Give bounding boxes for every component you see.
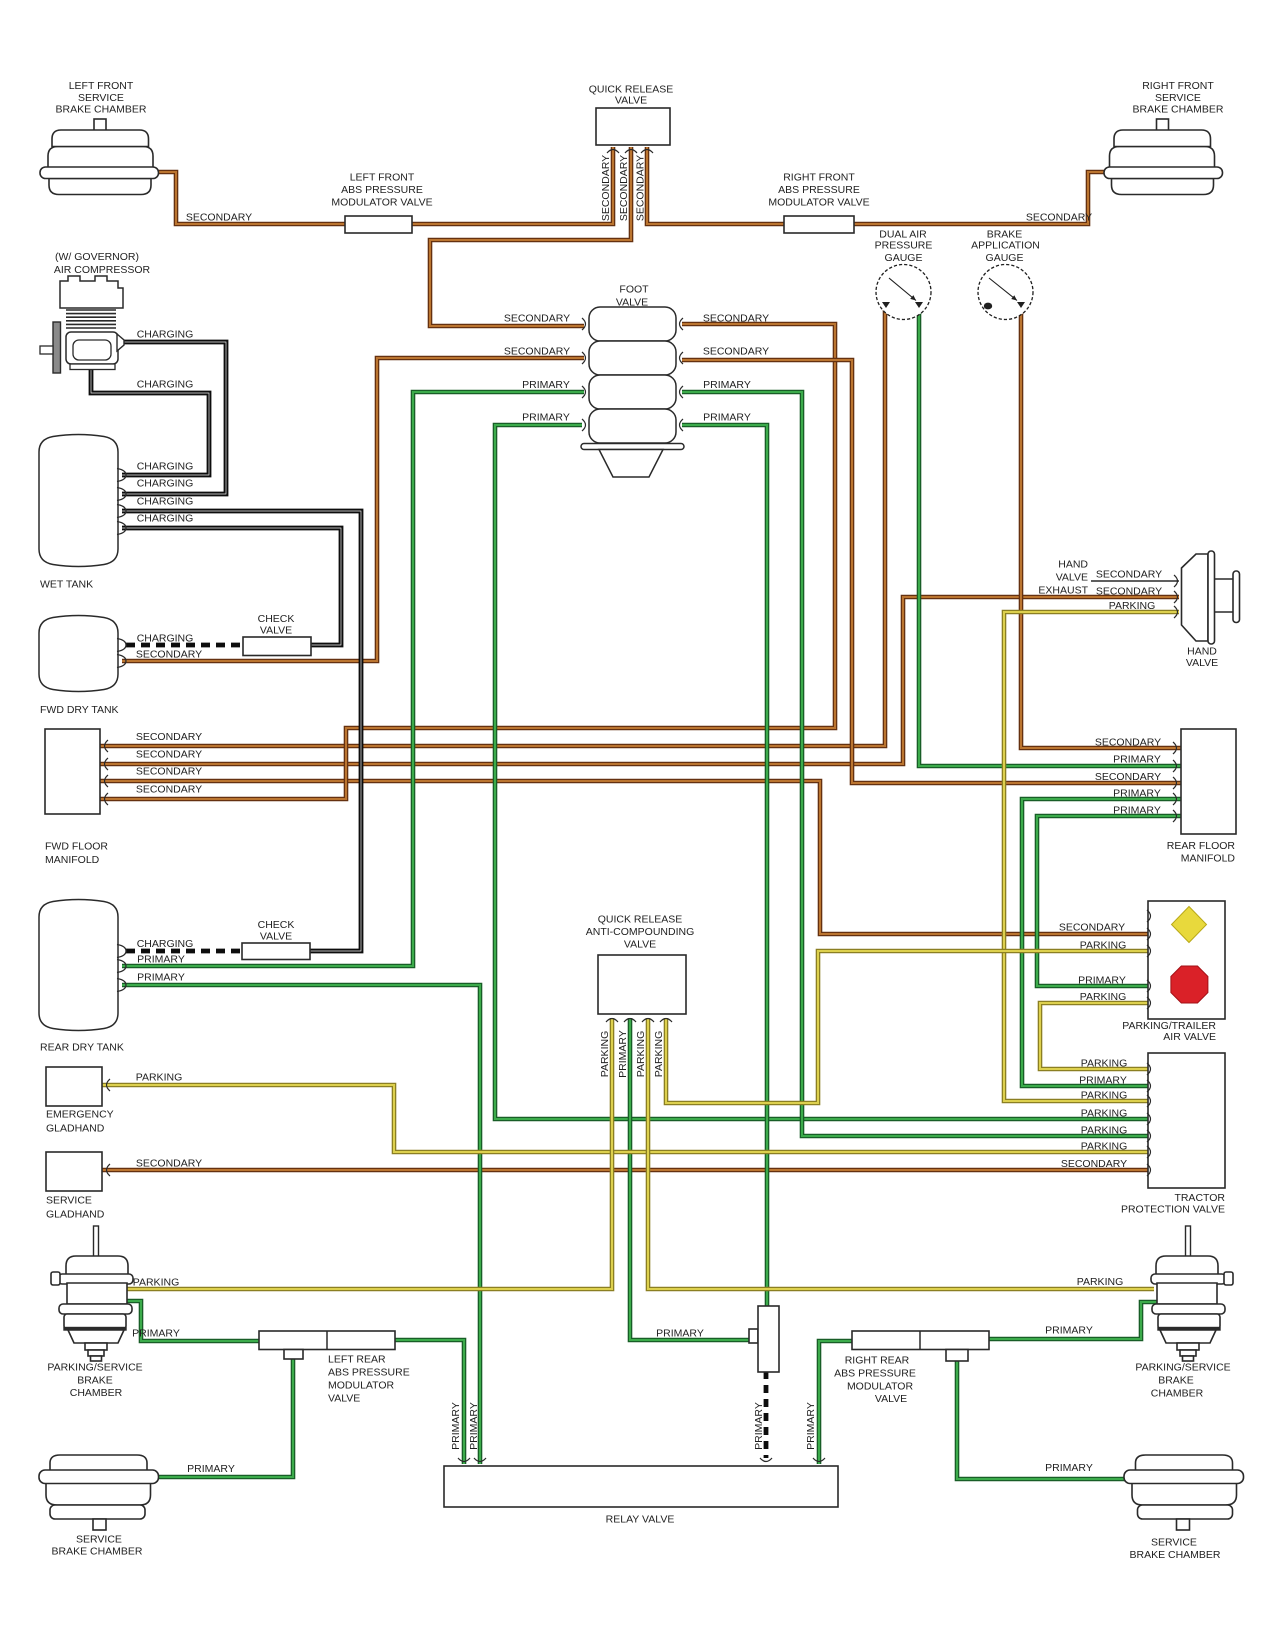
svg-text:SERVICE: SERVICE <box>1151 1537 1197 1549</box>
svg-text:PARKING: PARKING <box>1081 1125 1127 1137</box>
svg-text:CHAMBER: CHAMBER <box>70 1387 123 1399</box>
svg-text:BRAKE: BRAKE <box>1158 1375 1194 1387</box>
svg-text:VALVE: VALVE <box>260 931 292 943</box>
svg-text:CHAMBER: CHAMBER <box>1151 1388 1204 1400</box>
svg-text:ABS PRESSURE: ABS PRESSURE <box>778 184 860 196</box>
svg-text:HAND: HAND <box>1187 646 1217 658</box>
svg-text:PARKING: PARKING <box>1081 1141 1127 1153</box>
svg-text:CHARGING: CHARGING <box>137 938 194 950</box>
svg-text:PRIMARY: PRIMARY <box>656 1328 704 1340</box>
svg-text:ANTI-COMPOUNDING: ANTI-COMPOUNDING <box>586 926 695 938</box>
svg-text:MODULATOR: MODULATOR <box>847 1381 914 1393</box>
svg-text:PARKING: PARKING <box>136 1072 182 1084</box>
svg-text:AIR VALVE: AIR VALVE <box>1163 1031 1216 1043</box>
svg-text:SECONDARY: SECONDARY <box>618 155 630 221</box>
svg-text:QUICK RELEASE: QUICK RELEASE <box>598 914 683 926</box>
svg-text:SECONDARY: SECONDARY <box>136 731 202 743</box>
svg-text:PARKING/SERVICE: PARKING/SERVICE <box>47 1362 142 1374</box>
svg-text:PROTECTION VALVE: PROTECTION VALVE <box>1121 1204 1225 1216</box>
svg-text:SECONDARY: SECONDARY <box>1095 771 1161 783</box>
svg-text:REAR DRY TANK: REAR DRY TANK <box>40 1042 124 1054</box>
svg-text:TRACTOR: TRACTOR <box>1174 1192 1225 1204</box>
svg-text:SECONDARY: SECONDARY <box>1095 737 1161 749</box>
svg-text:PRIMARY: PRIMARY <box>1113 788 1161 800</box>
svg-text:GLADHAND: GLADHAND <box>46 1209 105 1221</box>
svg-text:PRIMARY: PRIMARY <box>468 1402 480 1450</box>
svg-text:BRAKE CHAMBER: BRAKE CHAMBER <box>1132 104 1223 116</box>
svg-text:SECONDARY: SECONDARY <box>504 346 570 358</box>
svg-text:FWD DRY TANK: FWD DRY TANK <box>40 704 119 716</box>
svg-text:VALVE: VALVE <box>624 939 656 951</box>
svg-text:CHECK: CHECK <box>258 613 295 625</box>
svg-text:CHARGING: CHARGING <box>137 329 194 341</box>
svg-text:RIGHT FRONT: RIGHT FRONT <box>783 172 855 184</box>
svg-text:PRIMARY: PRIMARY <box>703 379 751 391</box>
svg-text:VALVE: VALVE <box>1186 657 1218 669</box>
svg-text:SECONDARY: SECONDARY <box>635 155 647 221</box>
svg-text:BRAKE CHAMBER: BRAKE CHAMBER <box>55 104 146 116</box>
svg-text:PRIMARY: PRIMARY <box>187 1463 235 1475</box>
svg-text:RIGHT FRONT: RIGHT FRONT <box>1142 80 1214 92</box>
svg-text:PARKING: PARKING <box>653 1031 665 1077</box>
svg-text:PRIMARY: PRIMARY <box>450 1402 462 1450</box>
svg-text:VALVE: VALVE <box>616 297 648 309</box>
svg-text:SECONDARY: SECONDARY <box>186 212 252 224</box>
svg-text:VALVE: VALVE <box>328 1393 360 1405</box>
svg-text:PRIMARY: PRIMARY <box>1045 1325 1093 1337</box>
svg-text:SECONDARY: SECONDARY <box>600 155 612 221</box>
svg-text:LEFT FRONT: LEFT FRONT <box>350 172 415 184</box>
svg-text:PARKING: PARKING <box>599 1031 611 1077</box>
svg-text:ABS PRESSURE: ABS PRESSURE <box>341 184 423 196</box>
svg-text:EXHAUST: EXHAUST <box>1038 585 1088 597</box>
svg-text:PRIMARY: PRIMARY <box>1078 975 1126 987</box>
svg-text:PARKING: PARKING <box>1080 991 1126 1003</box>
svg-text:SECONDARY: SECONDARY <box>136 749 202 761</box>
svg-text:SECONDARY: SECONDARY <box>136 784 202 796</box>
svg-text:EMERGENCY: EMERGENCY <box>46 1109 114 1121</box>
svg-text:SECONDARY: SECONDARY <box>136 1158 202 1170</box>
svg-text:PARKING/SERVICE: PARKING/SERVICE <box>1135 1362 1230 1374</box>
svg-text:REAR FLOOR: REAR FLOOR <box>1167 840 1236 852</box>
svg-text:SECONDARY: SECONDARY <box>136 766 202 778</box>
svg-text:MODULATOR VALVE: MODULATOR VALVE <box>331 197 432 209</box>
svg-text:SECONDARY: SECONDARY <box>1061 1158 1127 1170</box>
svg-text:BRAKE: BRAKE <box>77 1375 113 1387</box>
svg-text:PRIMARY: PRIMARY <box>753 1402 765 1450</box>
svg-text:PRIMARY: PRIMARY <box>703 412 751 424</box>
svg-text:CHECK: CHECK <box>258 919 295 931</box>
svg-text:PRIMARY: PRIMARY <box>1113 754 1161 766</box>
svg-text:LEFT FRONT: LEFT FRONT <box>69 80 134 92</box>
svg-text:VALVE: VALVE <box>1056 572 1088 584</box>
svg-text:SECONDARY: SECONDARY <box>1026 212 1092 224</box>
svg-text:PARKING: PARKING <box>1081 1058 1127 1070</box>
svg-text:SECONDARY: SECONDARY <box>136 649 202 661</box>
svg-text:BRAKE CHAMBER: BRAKE CHAMBER <box>1129 1549 1220 1561</box>
svg-text:WET TANK: WET TANK <box>40 579 93 591</box>
svg-text:CHARGING: CHARGING <box>137 496 194 508</box>
svg-text:CHARGING: CHARGING <box>137 513 194 525</box>
svg-text:PRIMARY: PRIMARY <box>1045 1462 1093 1474</box>
svg-text:GLADHAND: GLADHAND <box>46 1123 105 1135</box>
svg-text:SECONDARY: SECONDARY <box>1059 922 1125 934</box>
svg-text:GAUGE: GAUGE <box>986 252 1024 264</box>
svg-text:SECONDARY: SECONDARY <box>1096 569 1162 581</box>
svg-text:PRIMARY: PRIMARY <box>137 972 185 984</box>
svg-text:PARKING: PARKING <box>1077 1276 1123 1288</box>
svg-text:CHARGING: CHARGING <box>137 379 194 391</box>
svg-text:PRIMARY: PRIMARY <box>805 1402 817 1450</box>
svg-text:PARKING: PARKING <box>1109 600 1155 612</box>
svg-text:MANIFOLD: MANIFOLD <box>45 854 100 866</box>
svg-text:PARKING: PARKING <box>1081 1090 1127 1102</box>
svg-text:ABS PRESSURE: ABS PRESSURE <box>328 1367 410 1379</box>
svg-text:CHARGING: CHARGING <box>137 478 194 490</box>
svg-text:PRIMARY: PRIMARY <box>1079 1075 1127 1087</box>
svg-text:SERVICE: SERVICE <box>76 1534 122 1546</box>
svg-text:(W/ GOVERNOR): (W/ GOVERNOR) <box>55 251 139 263</box>
svg-text:PRIMARY: PRIMARY <box>132 1328 180 1340</box>
svg-text:PRIMARY: PRIMARY <box>522 412 570 424</box>
svg-text:SERVICE: SERVICE <box>1155 92 1201 104</box>
svg-text:VALVE: VALVE <box>260 625 292 637</box>
svg-text:MANIFOLD: MANIFOLD <box>1181 853 1236 865</box>
svg-text:AIR COMPRESSOR: AIR COMPRESSOR <box>54 264 151 276</box>
svg-text:PARKING: PARKING <box>1080 940 1126 952</box>
svg-text:ABS PRESSURE: ABS PRESSURE <box>834 1368 916 1380</box>
svg-text:APPLICATION: APPLICATION <box>971 240 1040 252</box>
svg-text:PRIMARY: PRIMARY <box>617 1030 629 1078</box>
svg-text:PARKING: PARKING <box>635 1031 647 1077</box>
svg-text:VALVE: VALVE <box>615 95 647 107</box>
svg-text:BRAKE CHAMBER: BRAKE CHAMBER <box>51 1546 142 1558</box>
svg-text:PRIMARY: PRIMARY <box>1113 805 1161 817</box>
svg-text:SECONDARY: SECONDARY <box>504 313 570 325</box>
svg-text:PARKING: PARKING <box>133 1277 179 1289</box>
svg-text:HAND: HAND <box>1058 559 1088 571</box>
svg-text:RIGHT REAR: RIGHT REAR <box>845 1355 910 1367</box>
svg-text:RELAY VALVE: RELAY VALVE <box>606 1514 675 1526</box>
svg-text:SERVICE: SERVICE <box>46 1195 92 1207</box>
svg-text:SECONDARY: SECONDARY <box>703 346 769 358</box>
svg-text:PRESSURE: PRESSURE <box>875 240 933 252</box>
svg-text:FWD FLOOR: FWD FLOOR <box>45 841 108 853</box>
svg-text:SECONDARY: SECONDARY <box>703 313 769 325</box>
svg-text:MODULATOR VALVE: MODULATOR VALVE <box>768 197 869 209</box>
svg-text:CHARGING: CHARGING <box>137 461 194 473</box>
svg-text:PARKING: PARKING <box>1081 1108 1127 1120</box>
svg-text:LEFT REAR: LEFT REAR <box>328 1354 386 1366</box>
svg-text:FOOT: FOOT <box>619 284 649 296</box>
svg-text:SERVICE: SERVICE <box>78 92 124 104</box>
svg-text:MODULATOR: MODULATOR <box>328 1380 395 1392</box>
svg-text:GAUGE: GAUGE <box>885 252 923 264</box>
svg-text:VALVE: VALVE <box>875 1393 907 1405</box>
svg-text:PRIMARY: PRIMARY <box>522 379 570 391</box>
svg-text:PRIMARY: PRIMARY <box>137 954 185 966</box>
svg-text:SECONDARY: SECONDARY <box>1096 586 1162 598</box>
svg-text:CHARGING: CHARGING <box>137 633 194 645</box>
